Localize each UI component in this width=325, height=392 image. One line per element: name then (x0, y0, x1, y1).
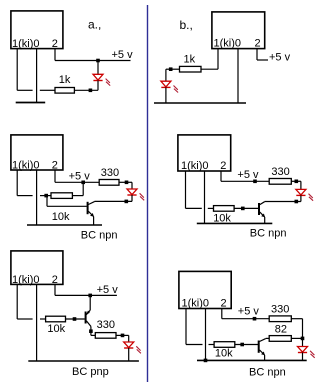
wire collector down (90, 326, 92, 335)
wire LED cathode to collector (95, 200, 133, 202)
svg-text:+5 v: +5 v (69, 171, 91, 183)
svg-text:82: 82 (275, 324, 287, 336)
wire base to 10k (234, 207, 258, 209)
ground rail (197, 359, 307, 361)
ground bar (16, 102, 46, 104)
svg-text:330: 330 (97, 319, 115, 331)
node dot where 82 joins (301, 337, 305, 341)
resistor R11 10k (214, 342, 235, 348)
svg-text:b.,: b., (180, 18, 193, 32)
wire LED anode down (165, 69, 167, 81)
svg-text:BC npn: BC npn (249, 366, 286, 378)
wire pin 2 down (54, 170, 56, 182)
transistor Q2 BC npn (259, 202, 265, 218)
logic IC U5 box (11, 251, 63, 285)
+5V rail wire (55, 60, 131, 62)
node dot at 10k left (44, 194, 48, 198)
svg-text:2: 2 (220, 160, 226, 172)
resistor R9 330 (269, 316, 291, 322)
wire LED anode down (300, 181, 302, 189)
wire node vertical (46, 196, 48, 207)
wire pin 1(ki) down (185, 308, 187, 344)
wire pin 1(ki) down (217, 49, 219, 70)
resistor R3 330 (99, 180, 119, 186)
svg-text:2: 2 (52, 38, 58, 50)
+5V rail wire (222, 318, 269, 320)
node dot after 330 (125, 181, 129, 185)
svg-text:2: 2 (52, 159, 58, 171)
wire collector to 330 (91, 334, 95, 336)
wire 10k right to pull-up corner (72, 195, 83, 197)
wire pin 0 down to ground (204, 171, 206, 224)
wire pin 2 down (256, 49, 258, 61)
LED D1 (93, 74, 110, 85)
wire 10k left to crossover (209, 344, 215, 346)
wire crossover to pin 1(ki) (17, 89, 32, 91)
wire pin 1(ki) to crossover (17, 195, 32, 197)
svg-text:1(ki)0: 1(ki)0 (12, 159, 40, 171)
wire emitter down to ground (264, 217, 266, 223)
ground rail (28, 360, 139, 362)
logic IC U3 box (11, 135, 63, 170)
svg-text:+5 v: +5 v (238, 306, 260, 318)
wire pin 2 down (221, 308, 223, 318)
wire 10k left to crossover (40, 318, 46, 320)
LED D3 (127, 189, 144, 200)
resistor R6 10k (214, 206, 235, 212)
wire 82 right to LED column (291, 337, 302, 339)
ground rail (197, 222, 272, 224)
wire resistor to LED corner (291, 180, 301, 182)
+5V rail wire (221, 180, 269, 182)
wire crossover to pin 1(ki) (186, 344, 203, 346)
node dot on rail (253, 317, 257, 321)
node dot near LED cathode corner (89, 89, 93, 93)
ground rail (154, 102, 246, 104)
ground rail (27, 224, 102, 226)
wire pin 0 down to ground rail (237, 49, 239, 104)
wire pin 0 down to ground (36, 170, 38, 225)
LED D2 (161, 81, 178, 92)
svg-text:1k: 1k (59, 74, 71, 86)
wire 82 left to collector (266, 337, 270, 339)
wire base to node (47, 205, 87, 207)
svg-text:330: 330 (271, 166, 289, 178)
LED D4 (296, 189, 313, 200)
svg-text:10k: 10k (47, 323, 65, 335)
node dot on collector wire (295, 200, 299, 204)
wire emitter down to ground (93, 217, 95, 226)
transistor Q4 BC npn (259, 339, 266, 356)
wire LED cathode down (131, 195, 133, 201)
svg-text:1(ki)0: 1(ki)0 (182, 297, 210, 309)
wire LED anode down (131, 182, 133, 189)
svg-text:10k: 10k (215, 347, 233, 359)
resistor R2 1k (180, 66, 202, 72)
svg-text:BC pnp: BC pnp (72, 366, 109, 378)
wire pin 0 down to ground (36, 49, 38, 103)
wire resistor to LED corner (119, 181, 132, 183)
node dot pin 0 at ground (204, 359, 208, 363)
transistor Q3 BC pnp (86, 310, 91, 326)
svg-text:+5 v: +5 v (97, 284, 119, 296)
logic IC U6 box (179, 271, 231, 308)
wire crossover to node (40, 195, 46, 197)
wire emitter down to ground (264, 355, 266, 360)
svg-text:330: 330 (271, 303, 289, 315)
node dot on base wire (241, 207, 245, 211)
wire 10k left to crossover (208, 207, 214, 209)
svg-text:2: 2 (255, 38, 261, 50)
wire LED column down (302, 319, 304, 347)
svg-text:10k: 10k (52, 211, 70, 223)
svg-text:1(ki)0: 1(ki)0 (214, 38, 242, 50)
wire pin 2 down (54, 285, 56, 296)
wire crossover to pin 1(ki) (17, 318, 32, 320)
LED D5 (124, 342, 141, 353)
wire 330 to LED column (291, 318, 302, 320)
logic IC U2 box (212, 12, 265, 49)
resistor R1 1k (55, 88, 74, 94)
wire 330 to LED corner (116, 334, 129, 336)
node dot on rail at pull-up (81, 181, 85, 185)
wire pin 2 down (54, 49, 56, 61)
node dot on base wire (73, 317, 77, 321)
node dot on base wire (240, 343, 244, 347)
wire LED cathode to ground rail (165, 87, 167, 103)
node dot on anode wire (169, 67, 173, 71)
wire crossover to pin 1(ki) (186, 207, 202, 209)
svg-text:2: 2 (52, 274, 58, 286)
svg-text:+5 v: +5 v (112, 49, 134, 61)
svg-text:+5 v: +5 v (237, 169, 259, 181)
node dot after 330 (121, 334, 125, 338)
wire LED cathode to collector (265, 201, 301, 203)
svg-text:+5 v: +5 v (269, 52, 291, 64)
node dot on collector wire (89, 329, 93, 333)
svg-text:1k: 1k (184, 54, 196, 66)
wire base to 10k (235, 344, 258, 346)
+5V rail wire (55, 294, 117, 296)
wire pin 0 down to ground (36, 285, 38, 361)
wire node to 10k (46, 195, 51, 197)
wire pin 2 down (220, 171, 222, 182)
resistor R5 330 (269, 179, 291, 185)
wire pull-up vertical to rail (82, 182, 84, 195)
wire base to 10k (66, 318, 85, 320)
wire resistor to crossover (40, 89, 55, 91)
wire LED anode (97, 61, 99, 75)
resistor R7 10k (46, 316, 66, 322)
transistor Q1 BC npn (88, 202, 95, 217)
wire pin 1(ki) down (185, 171, 187, 209)
wire LED cathode down (97, 81, 99, 91)
wire pin 1(ki) to resistor (201, 68, 218, 70)
wire emitter down (89, 295, 91, 310)
LED D6 (298, 347, 315, 358)
wire resistor to LED anode (166, 68, 180, 70)
node dot on rail at LED anode (96, 59, 100, 63)
+5V rail wire (55, 181, 99, 183)
svg-text:1(ki)0: 1(ki)0 (181, 160, 209, 172)
node dot on rail at emitter (88, 294, 92, 298)
node dot on rail (253, 180, 257, 184)
svg-text:2: 2 (221, 297, 227, 309)
svg-text:330: 330 (101, 167, 119, 179)
node dot on collector wire (125, 200, 129, 204)
wire LED anode down (128, 335, 130, 342)
wire pin 2 stub right (257, 59, 268, 61)
wire LED cathode to ground (302, 353, 304, 361)
wire pin 0 down to ground (205, 308, 207, 360)
svg-text:1(ki)0: 1(ki)0 (12, 274, 40, 286)
wire pin 1(ki) down (16, 170, 18, 195)
node dot after 330 (295, 180, 299, 184)
svg-text:BC npn: BC npn (81, 230, 118, 242)
svg-text:a.,: a., (88, 18, 101, 32)
resistor R4 10k (51, 193, 72, 199)
svg-text:BC npn: BC npn (250, 227, 287, 239)
wire LED cathode down (300, 195, 302, 201)
wire pin 1(ki) down (16, 285, 18, 319)
svg-text:1(ki)0: 1(ki)0 (12, 38, 40, 50)
wire pin 1(ki) down (16, 49, 18, 90)
divider line between left and right columns (147, 5, 149, 382)
logic IC U4 box (178, 135, 231, 171)
wire LED cathode to resistor (74, 89, 98, 91)
resistor R10 82 (269, 336, 291, 342)
wire LED cathode to ground (128, 348, 130, 361)
logic IC U1 box (11, 11, 63, 49)
resistor R8 330 (95, 333, 116, 339)
